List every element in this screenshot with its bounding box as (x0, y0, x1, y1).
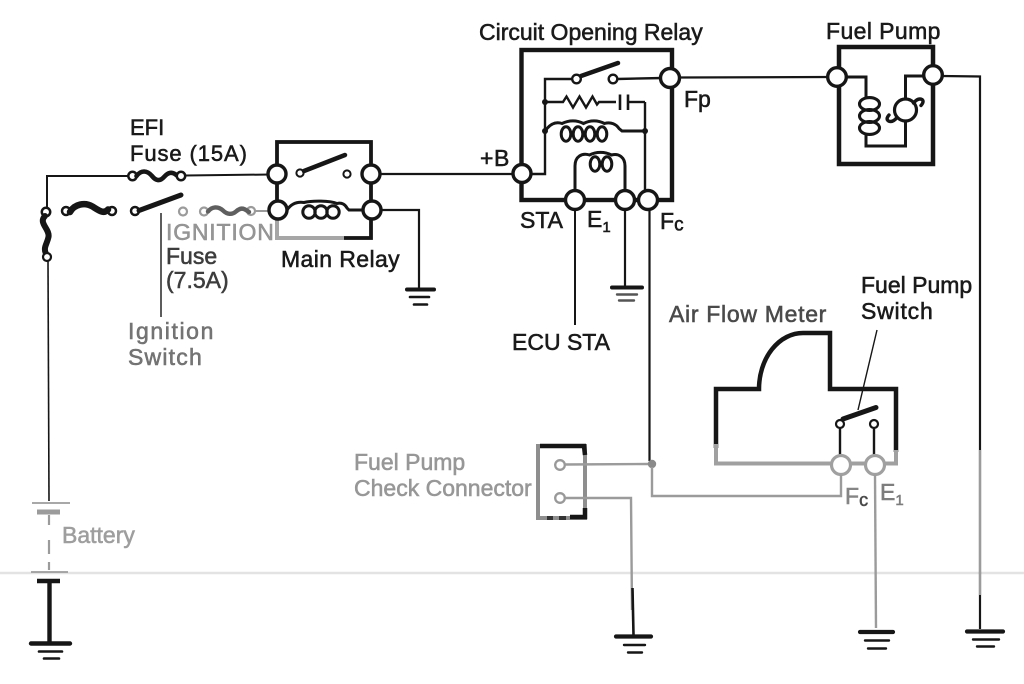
fusible link row: node circles (42, 207, 139, 216)
relay K2 switch contacts and blade (572, 63, 618, 83)
junction dots on inner left rail (542, 99, 548, 105)
capacitor C (620, 95, 645, 111)
svg-text:Air Flow Meter: Air Flow Meter (669, 301, 827, 327)
leader line: fuel pump switch (858, 330, 877, 410)
svg-text:ECU STA: ECU STA (512, 329, 611, 355)
svg-text:Switch: Switch (861, 298, 934, 324)
wire: main relay to ground (381, 210, 419, 288)
relay K2 Circuit Opening Relay box (522, 50, 673, 200)
svg-text:Fuel Pump: Fuel Pump (826, 18, 941, 44)
relay K1 Main Relay box (277, 142, 371, 238)
junction: Fc net (648, 460, 656, 468)
check connector black bottom-right corner (570, 508, 585, 517)
ground: check connector (616, 637, 651, 653)
svg-text:Circuit Opening Relay: Circuit Opening Relay (479, 19, 703, 45)
svg-text:+B: +B (480, 145, 510, 171)
leader line: Ignition Switch label (160, 213, 162, 317)
check connector pin 2 (555, 493, 565, 503)
fuse F1 EFI Fuse (15A) (128, 172, 185, 181)
svg-text:Fuel Pump: Fuel Pump (861, 272, 972, 298)
connector: fuel pump check connector box (538, 446, 585, 518)
fuel pump motor slash (887, 99, 923, 122)
svg-text:(7.5A): (7.5A) (166, 267, 229, 293)
wire: junction to AFM Fc (gray) (652, 467, 841, 496)
resistor R (545, 97, 616, 108)
wire: STA down to ECU (574, 209, 576, 325)
node: main relay bottom-right (363, 201, 381, 219)
wire: +B from main relay to circuit opening relay (380, 173, 513, 175)
wire: fuel pump to right rail and down (942, 76, 980, 629)
node: Fc terminal (639, 191, 658, 210)
fuel pump motor circle (895, 99, 917, 121)
node: main relay bottom-left (269, 201, 287, 219)
wire: pin2 down to ground (gray) (565, 498, 632, 610)
check connector bottom edge dark dashes (547, 516, 566, 520)
svg-text:Switch: Switch (128, 344, 203, 370)
battery B1 plates (31, 503, 70, 642)
wire: switch to Fp node (617, 78, 663, 79)
fuse F2 IGNITION fuse (gray) circles (179, 207, 255, 216)
air flow meter outline (gray bottom) (716, 444, 896, 464)
node: main relay top-right (362, 165, 380, 183)
node: +B terminal (513, 165, 531, 183)
node: fuel pump right (924, 66, 943, 85)
fuel pump coil path (845, 76, 925, 146)
svg-text:Fuse (15A): Fuse (15A) (130, 141, 248, 166)
ground: main relay (407, 290, 434, 305)
wire: AFM E1 down to ground (gray) (875, 475, 876, 628)
svg-text:Battery: Battery (62, 522, 135, 548)
fusible link (battery side, vertical) (43, 216, 49, 253)
svg-text:IGNITION: IGNITION (166, 219, 275, 245)
main relay coil (287, 201, 363, 218)
node: main relay top-left (268, 165, 286, 183)
wire: EFI fuse to Main Relay (185, 175, 270, 176)
node: E1 terminal (616, 191, 635, 210)
svg-text:Main Relay: Main Relay (281, 246, 400, 272)
ground: relay E1 (612, 288, 642, 301)
svg-text:EFI: EFI (130, 115, 164, 140)
check connector pin 1 (555, 460, 565, 470)
wire: check connector ground lead (black tip) (633, 588, 634, 635)
svg-text:Fp: Fp (684, 86, 711, 112)
fuse F2 IGNITION fuse squiggle (208, 207, 249, 213)
wire: main relay faded corner (gray) (277, 219, 344, 238)
wire: ignition fuse to Main Relay (gray) (255, 210, 270, 212)
relay coil L1 (4 loops) (545, 121, 645, 141)
node: STA terminal (566, 191, 585, 210)
air flow meter outline (black) (716, 333, 896, 452)
wire: Fp to fuel pump (679, 76, 830, 79)
fuel pump M1 box (839, 47, 933, 164)
node: Fp terminal (661, 69, 680, 88)
wire: inner right rail (644, 102, 646, 196)
svg-text:Check Connector: Check Connector (354, 475, 532, 501)
node: fuel pump left (828, 68, 847, 87)
wire: pin1 to junction (gray) (565, 463, 648, 466)
wire: down to battery (48, 261, 49, 501)
wire: Fc down to junction (648, 209, 650, 461)
wire: right rail faded segment (979, 450, 981, 595)
main relay switch contact circles and blade (296, 155, 350, 178)
fuel pump switch contacts and blade (836, 408, 878, 457)
relay coil L2 (2 loops) (575, 152, 625, 196)
fusible link (main) (70, 204, 108, 212)
ground: AFM E1 (860, 632, 893, 649)
check connector black top edge (540, 446, 585, 455)
wire: battery feed horizontal to EFI fuse (47, 176, 128, 211)
wire: E1 to ground (624, 209, 626, 286)
svg-text:Ignition: Ignition (128, 318, 215, 344)
svg-text:Fuel Pump: Fuel Pump (354, 449, 465, 475)
junction dot right rail (642, 128, 648, 134)
node: AFM Fc terminal (gray) (832, 456, 851, 475)
svg-text:STA: STA (520, 207, 564, 233)
node: AFM E1 terminal (gray) (866, 456, 885, 475)
svg-text:Fuse: Fuse (166, 243, 217, 269)
ground: battery (31, 644, 70, 659)
ignition switch blade (139, 195, 181, 211)
ground: right rail (967, 632, 1003, 647)
node: battery link terminal (43, 253, 51, 261)
wire: +B node to inner vertical (530, 79, 572, 174)
